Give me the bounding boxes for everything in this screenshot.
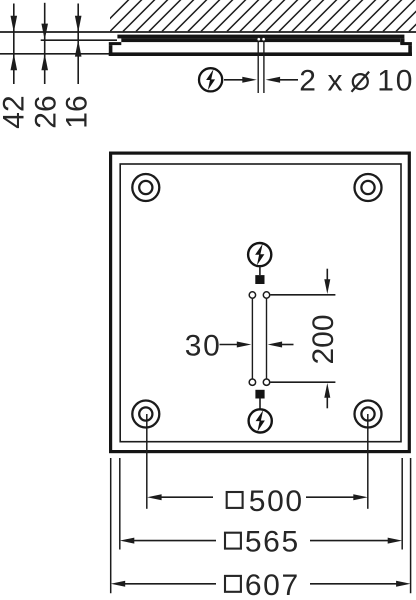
svg-text:607: 607 xyxy=(245,569,300,600)
ceiling hatch xyxy=(97,0,416,31)
electrical connection symbol plan bottom xyxy=(249,409,272,432)
luminaire mounting plate (profile) xyxy=(117,35,404,39)
diameter symbol xyxy=(352,72,370,92)
extension line 2 (body top level) xyxy=(41,39,117,41)
fixing hole bottom-left xyxy=(132,401,159,428)
link line top xyxy=(259,266,261,275)
body right edge xyxy=(408,45,412,56)
ceiling underside line / extension line 1 xyxy=(0,31,416,33)
svg-text:30: 30 xyxy=(185,330,222,363)
dimension 607 line right xyxy=(310,581,411,587)
dimension 500 line right xyxy=(306,494,368,500)
extension line hole left xyxy=(146,414,148,509)
extension line outer left xyxy=(110,458,112,593)
dimension 30 arrow left xyxy=(220,342,252,348)
svg-text:42: 42 xyxy=(0,95,31,128)
fixing hole top-left xyxy=(132,174,159,201)
square symbol 500 xyxy=(227,492,243,508)
dimension 30 arrow right xyxy=(268,342,294,348)
body left edge xyxy=(109,45,113,56)
cable entry lines (profile) xyxy=(257,41,259,94)
extension line outer right xyxy=(410,458,412,593)
square symbol 565 xyxy=(225,533,241,549)
dimension 565 line left xyxy=(120,538,216,544)
extension line 3 (body bottom level) xyxy=(0,53,109,55)
plan view outer square xyxy=(111,153,410,452)
cable hole top-right xyxy=(263,292,269,298)
cable hole bottom-right xyxy=(263,379,269,385)
link line bottom xyxy=(259,399,261,409)
hole extension line right xyxy=(266,299,268,379)
svg-text:10: 10 xyxy=(377,64,414,97)
body shoulder left xyxy=(109,42,122,45)
cable hole bottom-left xyxy=(249,379,255,385)
dimension 200 top extension line xyxy=(270,294,335,296)
svg-text:2 x: 2 x xyxy=(299,64,344,97)
dimension column 42 xyxy=(11,4,18,85)
luminaire body top edge (profile) xyxy=(121,38,400,42)
square symbol 607 xyxy=(225,576,241,592)
junction box bottom xyxy=(255,390,264,399)
svg-text:200: 200 xyxy=(307,314,340,364)
fixing hole top-right xyxy=(355,174,382,201)
cable gland circles (profile) xyxy=(257,37,261,41)
junction box top xyxy=(255,275,264,284)
extension line hole right xyxy=(367,414,369,509)
svg-text:500: 500 xyxy=(249,485,304,518)
extension line inner left xyxy=(119,458,121,550)
electrical connection symbol plan top xyxy=(248,243,271,266)
cable hole top-left xyxy=(249,292,255,298)
extension line inner right xyxy=(401,458,403,550)
body bottom edge xyxy=(109,52,412,56)
dimension column 26 xyxy=(41,3,48,84)
dimension 565 line right xyxy=(310,538,402,544)
dimension 200 top arrow xyxy=(324,269,330,294)
body shoulder right xyxy=(400,42,412,45)
svg-text:565: 565 xyxy=(245,526,300,559)
arrow to cable entries left xyxy=(224,77,257,83)
arrow to cable entries right xyxy=(266,77,298,83)
plan view inner square xyxy=(120,164,401,442)
svg-text:26: 26 xyxy=(30,95,63,128)
fixing hole bottom-right xyxy=(355,401,382,428)
hole extension line left xyxy=(251,299,253,379)
dimension 607 line left xyxy=(111,581,216,587)
svg-text:16: 16 xyxy=(61,95,94,128)
dimension 500 line left xyxy=(147,494,213,500)
dimension column 16 xyxy=(75,4,82,85)
dimension 200 bottom extension line xyxy=(270,381,335,383)
body top-right corner fill xyxy=(400,38,404,43)
electrical connection symbol (profile) xyxy=(199,68,222,91)
dimension 200 bottom arrow xyxy=(324,383,330,408)
